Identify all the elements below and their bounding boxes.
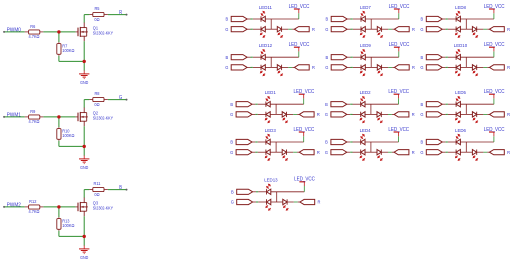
wire: [83, 236, 85, 245]
svg-text:B: B: [421, 16, 424, 21]
LED B arrows: [456, 137, 459, 140]
LED B diode: [455, 139, 457, 144]
svg-text:B: B: [421, 139, 424, 144]
junction: [83, 145, 86, 148]
wire: [365, 151, 377, 153]
LED R diode: [282, 112, 286, 117]
svg-text:4.7KΩ: 4.7KΩ: [28, 119, 40, 124]
LED B diode: [360, 102, 362, 107]
LED B diode: [360, 139, 362, 144]
svg-text:LED11: LED11: [259, 5, 272, 10]
port G: [331, 65, 347, 70]
LED R arrows: [283, 117, 286, 120]
wire: [448, 66, 456, 68]
LED G arrows: [261, 70, 264, 73]
RGB LED LED9: [325, 42, 415, 76]
RGB LED LED10: [420, 42, 510, 76]
RGB LED LED6: [420, 127, 510, 161]
wire drain: [83, 15, 85, 23]
wire: [58, 54, 60, 56]
RGB LED LED3: [230, 127, 320, 161]
LED G diode: [455, 65, 457, 70]
port R: [394, 112, 409, 117]
LED R diode: [377, 65, 381, 70]
svg-text:0Ω: 0Ω: [94, 101, 100, 106]
wire source: [83, 41, 85, 61]
port B: [236, 139, 252, 144]
LED B arrows: [361, 99, 364, 102]
port B: [331, 55, 347, 60]
LED B arrows: [456, 99, 459, 102]
RGB LED LED13: [231, 176, 321, 210]
svg-text:B: B: [325, 139, 328, 144]
LED G diode: [265, 112, 267, 117]
wire: [253, 28, 261, 30]
wire: [493, 98, 495, 104]
wire: [483, 28, 487, 30]
wire: [448, 56, 456, 58]
wire: [303, 98, 305, 104]
LED G diode: [360, 27, 362, 32]
svg-text:R: R: [507, 112, 511, 117]
wire: [265, 66, 277, 68]
wire: [288, 28, 292, 30]
LED G arrows: [266, 205, 269, 208]
resistor R5: [93, 12, 104, 16]
svg-text:B: B: [225, 16, 228, 21]
wire junction vertical: [465, 104, 467, 114]
LED G arrows: [361, 70, 364, 73]
wire: [448, 113, 456, 115]
wire: [293, 113, 297, 115]
svg-text:0Ω: 0Ω: [94, 16, 100, 21]
port B: [231, 55, 247, 60]
wire: [442, 103, 445, 105]
wire: [347, 28, 350, 30]
port R: [490, 65, 505, 70]
wire anode row: [460, 141, 494, 143]
svg-text:LED7: LED7: [360, 5, 371, 10]
svg-text:B: B: [230, 102, 233, 107]
svg-text:B: B: [119, 184, 122, 189]
port R: [294, 65, 309, 70]
wire: [258, 113, 266, 115]
wire: [294, 201, 298, 203]
wire: [58, 139, 60, 141]
wire drain: [83, 190, 85, 198]
svg-text:G: G: [420, 27, 424, 32]
wire anode row: [270, 103, 304, 105]
svg-text:R: R: [119, 9, 123, 14]
LED G diode: [266, 199, 268, 204]
power LED_VCC: [398, 94, 400, 98]
wire: [483, 113, 487, 115]
svg-text:R: R: [312, 65, 316, 70]
wire: [104, 189, 108, 191]
power LED_VCC: [493, 132, 495, 136]
wire: [347, 18, 350, 20]
output pin R: [126, 14, 128, 16]
RGB LED LED1: [230, 89, 320, 123]
svg-text:LED_VCC: LED_VCC: [389, 42, 410, 48]
LED G diode: [265, 150, 267, 155]
wire: [5, 31, 25, 33]
wire: [448, 103, 456, 105]
wire: [84, 189, 89, 191]
port G: [426, 112, 442, 117]
wire source: [83, 126, 85, 146]
LED G diode: [360, 150, 362, 155]
svg-text:LED3: LED3: [265, 128, 276, 133]
wire: [303, 186, 305, 192]
port G: [236, 112, 252, 117]
LED B arrows: [266, 137, 269, 140]
wire anode row: [460, 56, 494, 58]
junction: [57, 115, 60, 118]
wire junction vertical: [370, 104, 372, 114]
LED R diode: [377, 27, 381, 32]
resistor R13: [57, 219, 61, 230]
wire: [448, 141, 456, 143]
wire source: [83, 216, 85, 236]
wire: [270, 113, 282, 115]
wire: [347, 141, 350, 143]
port B: [231, 16, 247, 21]
svg-text:LED2: LED2: [360, 90, 371, 95]
wire: [460, 28, 472, 30]
wire: [282, 66, 289, 68]
wire: [252, 113, 255, 115]
svg-text:0Ω: 0Ω: [94, 191, 100, 196]
wire junction vertical: [465, 19, 467, 29]
wire: [59, 235, 84, 237]
wire: [58, 117, 60, 127]
wire anode row: [365, 141, 399, 143]
wire: [5, 206, 25, 208]
input pin PWM1: [3, 116, 5, 118]
wire: [287, 151, 294, 153]
port B: [331, 139, 347, 144]
wire anode row: [365, 18, 399, 20]
port R: [490, 27, 505, 32]
svg-text:LED5: LED5: [455, 90, 466, 95]
junction: [57, 30, 60, 33]
transistor Q2: [76, 116, 78, 118]
LED B diode: [455, 55, 457, 60]
LED B arrows: [361, 14, 364, 17]
wire: [253, 56, 261, 58]
wire: [442, 151, 445, 153]
svg-text:GND: GND: [80, 164, 88, 169]
LED R arrows: [473, 155, 476, 158]
wire: [253, 66, 261, 68]
RGB LED LED8: [420, 4, 510, 38]
transistor Q1: [76, 31, 78, 33]
LED G diode: [455, 150, 457, 155]
wire: [59, 60, 84, 62]
port R: [490, 112, 505, 117]
svg-text:R: R: [312, 27, 316, 32]
wire: [253, 201, 256, 203]
wire: [460, 113, 472, 115]
wire: [365, 113, 377, 115]
wire: [84, 99, 89, 101]
wire: [381, 113, 388, 115]
wire: [353, 103, 361, 105]
wire: [353, 151, 361, 153]
wire: [253, 18, 261, 20]
svg-text:LED_VCC: LED_VCC: [484, 89, 505, 95]
wire: [247, 56, 250, 58]
port R: [394, 27, 409, 32]
power LED_VCC: [303, 132, 305, 136]
wire: [448, 18, 456, 20]
wire: [252, 103, 255, 105]
wire junction vertical: [370, 19, 372, 29]
svg-text:B: B: [421, 55, 424, 60]
svg-text:B: B: [231, 189, 234, 194]
port G: [426, 65, 442, 70]
wire junction vertical: [275, 104, 277, 114]
power LED_VCC: [398, 132, 400, 136]
svg-text:G: G: [325, 65, 329, 70]
wire: [282, 28, 289, 30]
wire: [382, 28, 389, 30]
LED G diode: [360, 112, 362, 117]
wire junction vertical: [370, 57, 372, 67]
svg-text:R: R: [318, 199, 322, 204]
wire: [347, 113, 350, 115]
svg-text:B: B: [325, 102, 328, 107]
wire: [258, 141, 266, 143]
wire: [493, 13, 495, 19]
ground GND: [83, 245, 85, 249]
wire: [252, 151, 255, 153]
port G: [331, 112, 347, 117]
svg-text:SI2302-KKY: SI2302-KKY: [93, 205, 114, 210]
port G: [231, 27, 247, 32]
svg-text:4.7KΩ: 4.7KΩ: [28, 34, 40, 39]
svg-text:R: R: [412, 150, 416, 155]
power LED_VCC: [493, 9, 495, 13]
LED R arrows: [378, 117, 381, 120]
LED B arrows: [261, 52, 264, 55]
svg-text:4.7KΩ: 4.7KΩ: [28, 209, 40, 214]
LED B arrows: [456, 52, 459, 55]
LED B arrows: [267, 187, 270, 190]
LED B diode: [265, 102, 267, 107]
LED G diode: [455, 112, 457, 117]
wire: [258, 191, 266, 193]
wire: [253, 191, 256, 193]
LED B diode: [360, 16, 362, 21]
LED B diode: [360, 55, 362, 60]
wire: [58, 207, 60, 217]
svg-text:LED_VCC: LED_VCC: [484, 42, 505, 48]
wire: [104, 99, 108, 101]
resistor R8: [93, 97, 104, 101]
svg-text:LED_VCC: LED_VCC: [388, 127, 409, 133]
wire junction vertical: [465, 142, 467, 152]
svg-text:LED9: LED9: [360, 43, 371, 48]
svg-text:LED_VCC: LED_VCC: [388, 89, 409, 95]
wire: [483, 151, 487, 153]
LED G diode: [260, 27, 262, 32]
resistor R6: [29, 30, 40, 34]
port B: [331, 102, 347, 107]
LED G arrows: [456, 70, 459, 73]
svg-text:LED_VCC: LED_VCC: [484, 4, 505, 10]
wire: [353, 56, 361, 58]
wire: [442, 28, 445, 30]
LED R arrows: [473, 70, 476, 73]
port B: [237, 189, 253, 194]
LED B arrows: [266, 99, 269, 102]
svg-text:R: R: [412, 112, 416, 117]
wire: [365, 28, 377, 30]
LED R arrows: [378, 70, 381, 73]
LED G arrows: [456, 32, 459, 35]
RGB LED LED7: [325, 4, 415, 38]
LED R arrows: [473, 32, 476, 35]
LED B diode: [265, 139, 267, 144]
LED R arrows: [278, 70, 281, 73]
wire: [258, 201, 266, 203]
svg-text:LED_VCC: LED_VCC: [484, 127, 505, 133]
LED G diode: [260, 65, 262, 70]
wire: [271, 201, 283, 203]
svg-text:LED_VCC: LED_VCC: [389, 4, 410, 10]
svg-text:R12: R12: [29, 199, 37, 204]
wire anode row: [460, 103, 494, 105]
wire: [59, 145, 84, 147]
svg-text:G: G: [230, 150, 234, 155]
svg-text:LED_VCC: LED_VCC: [294, 127, 315, 133]
wire: [40, 116, 44, 118]
svg-text:B: B: [225, 55, 228, 60]
wire anode row: [460, 18, 494, 20]
ground GND: [83, 155, 85, 159]
wire anode row: [265, 56, 299, 58]
LED R arrows: [284, 205, 287, 208]
svg-text:B: B: [325, 55, 328, 60]
wire: [252, 141, 255, 143]
power LED_VCC: [298, 47, 300, 51]
svg-text:PWM0: PWM0: [7, 27, 21, 33]
wire anode row: [271, 191, 305, 193]
svg-text:100KΩ: 100KΩ: [62, 48, 75, 53]
LED R diode: [472, 65, 476, 70]
wire: [388, 151, 392, 153]
port R: [394, 150, 409, 155]
svg-text:R: R: [317, 150, 321, 155]
wire: [265, 28, 277, 30]
wire: [460, 151, 472, 153]
svg-text:R: R: [412, 65, 416, 70]
svg-text:B: B: [230, 139, 233, 144]
wire: [258, 151, 266, 153]
power LED_VCC: [303, 182, 305, 186]
wire anode row: [265, 18, 299, 20]
resistor R10: [57, 129, 61, 140]
svg-text:LED12: LED12: [259, 43, 273, 48]
power LED_VCC: [398, 47, 400, 51]
port B: [331, 16, 347, 21]
svg-text:LED6: LED6: [455, 128, 466, 133]
svg-text:SI2302-KKY: SI2302-KKY: [93, 115, 114, 120]
LED G arrows: [265, 117, 268, 120]
LED R arrows: [283, 155, 286, 158]
power LED_VCC: [398, 9, 400, 13]
svg-text:R9: R9: [30, 109, 36, 114]
wire: [493, 136, 495, 142]
svg-text:LED_VCC: LED_VCC: [289, 42, 310, 48]
output pin G: [126, 99, 128, 101]
svg-text:GND: GND: [80, 79, 88, 84]
wire: [477, 66, 484, 68]
port B: [426, 16, 442, 21]
RGB LED LED11: [225, 4, 315, 38]
svg-text:PWM1: PWM1: [7, 112, 21, 118]
svg-text:100KΩ: 100KΩ: [62, 223, 75, 228]
LED G arrows: [361, 32, 364, 35]
svg-text:R6: R6: [30, 24, 36, 29]
wire anode row: [270, 141, 304, 143]
svg-text:LED1: LED1: [265, 90, 276, 95]
output pin B: [126, 189, 128, 191]
wire: [483, 66, 487, 68]
svg-text:LED10: LED10: [454, 43, 468, 48]
LED R arrows: [278, 32, 281, 35]
wire: [382, 66, 389, 68]
wire: [353, 18, 361, 20]
wire: [40, 206, 44, 208]
wire: [388, 113, 392, 115]
wire: [83, 61, 85, 70]
resistor R7: [57, 44, 61, 55]
svg-text:SI2302-KKY: SI2302-KKY: [93, 30, 114, 35]
wire: [381, 151, 388, 153]
LED B arrows: [361, 52, 364, 55]
port G: [426, 150, 442, 155]
svg-text:G: G: [325, 27, 329, 32]
LED R arrows: [378, 32, 381, 35]
wire: [5, 116, 25, 118]
resistor R12: [29, 205, 40, 209]
port R: [490, 150, 505, 155]
wire: [448, 151, 456, 153]
LED B arrows: [456, 14, 459, 17]
port R: [294, 27, 309, 32]
LED G arrows: [360, 155, 363, 158]
wire: [493, 51, 495, 57]
RGB LED LED12: [225, 42, 315, 76]
wire: [247, 66, 250, 68]
wire: [83, 146, 85, 155]
wire: [270, 151, 282, 153]
wire anode row: [365, 56, 399, 58]
wire: [448, 28, 456, 30]
wire: [347, 66, 350, 68]
LED G diode: [360, 65, 362, 70]
LED G arrows: [265, 155, 268, 158]
svg-text:G: G: [420, 112, 424, 117]
wire: [398, 13, 400, 19]
wire junction vertical: [270, 19, 272, 29]
LED G diode: [455, 27, 457, 32]
wire: [287, 113, 294, 115]
power LED_VCC: [493, 47, 495, 51]
